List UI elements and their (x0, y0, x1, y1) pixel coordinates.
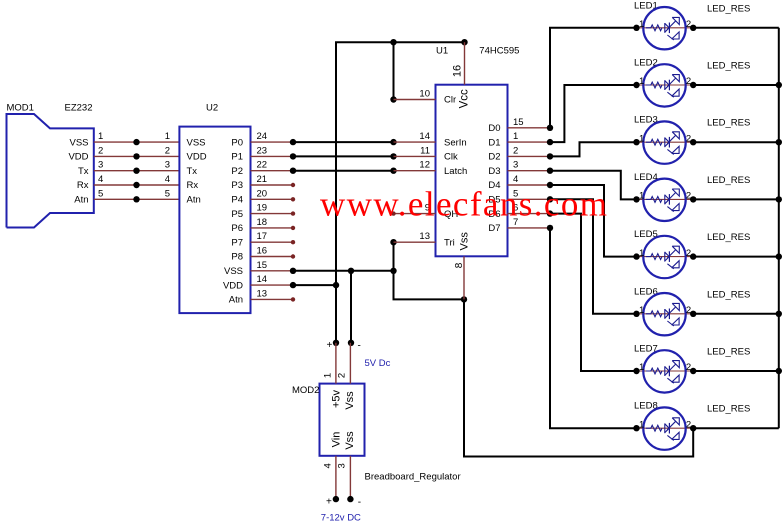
pin stub U1.Vss (pin 8) (454, 256, 465, 299)
svg-text:5: 5 (165, 188, 170, 199)
svg-text:EZ232: EZ232 (65, 103, 93, 114)
svg-text:P6: P6 (231, 223, 243, 234)
svg-text:20: 20 (257, 188, 268, 199)
pin stub U2.P3 (pin 21) (251, 183, 296, 187)
wire U1.D1 to LED2 anode (550, 85, 637, 142)
IC U1 74HC595 (419, 46, 523, 257)
5V supply minus terminal (348, 340, 361, 352)
svg-text:4: 4 (98, 174, 103, 185)
svg-text:Clk: Clk (444, 152, 458, 163)
svg-text:LED_RES: LED_RES (707, 289, 750, 300)
pin stub U2.P7 (pin 17) (251, 240, 296, 244)
7-12v supply minus terminal (347, 496, 361, 508)
svg-text:8: 8 (454, 262, 465, 268)
svg-text:LED_RES: LED_RES (707, 404, 750, 415)
svg-text:Breadboard_Regulator: Breadboard_Regulator (365, 471, 461, 482)
pin stub U2.P5 (pin 19) (251, 211, 296, 215)
svg-text:+5v: +5v (331, 389, 343, 408)
svg-text:4: 4 (323, 463, 334, 468)
svg-text:1: 1 (513, 131, 518, 142)
svg-text:P4: P4 (231, 195, 243, 206)
svg-text:1: 1 (639, 419, 644, 430)
svg-text:4: 4 (513, 174, 518, 185)
svg-text:P3: P3 (231, 180, 243, 191)
svg-text:P8: P8 (231, 252, 243, 263)
svg-text:21: 21 (257, 174, 268, 185)
svg-text:Vcc: Vcc (459, 89, 471, 108)
wire LED cathode bus vertical (778, 28, 780, 428)
LED6 LED_RES (633, 286, 750, 335)
wire 5V rail to U1.Clr (390, 39, 396, 103)
svg-text:LED_RES: LED_RES (707, 347, 750, 358)
svg-text:Vss: Vss (459, 232, 471, 251)
svg-text:11: 11 (420, 145, 430, 156)
svg-text:1: 1 (639, 76, 644, 87)
svg-text:VDD: VDD (187, 152, 207, 163)
svg-text:24: 24 (257, 131, 268, 142)
svg-text:Rx: Rx (77, 180, 89, 191)
svg-text:13: 13 (257, 288, 268, 299)
LED7 LED_RES (633, 344, 750, 393)
svg-text:Clr: Clr (444, 95, 456, 106)
svg-text:www.elecfans.com: www.elecfans.com (320, 185, 608, 224)
pin stub MOD2 pin 4 (Vin) (335, 456, 337, 499)
svg-text:U2: U2 (206, 103, 218, 114)
svg-text:19: 19 (257, 203, 268, 214)
wire U1.D4 to LED5 anode (550, 185, 637, 257)
connector MOD1 EZ232 (7, 103, 104, 228)
LED2 LED_RES (633, 58, 750, 107)
svg-text:D0: D0 (488, 123, 500, 134)
pin stub U1.D6 (508, 210, 554, 216)
svg-text:1: 1 (639, 362, 644, 373)
svg-text:3: 3 (513, 160, 518, 171)
LED1 LED_RES (633, 0, 750, 49)
svg-text:1: 1 (639, 19, 644, 30)
svg-text:1: 1 (639, 248, 644, 259)
svg-text:+: + (327, 340, 333, 351)
wire MOD1.VDD to U2 pin 2 (94, 145, 180, 159)
pin stub U1.D0 (508, 125, 554, 131)
svg-text:7-12v DC: 7-12v DC (321, 513, 361, 524)
svg-text:Vss: Vss (344, 391, 356, 410)
svg-text:2: 2 (337, 373, 348, 378)
svg-text:LED_RES: LED_RES (707, 61, 750, 72)
svg-text:2: 2 (98, 145, 103, 156)
svg-text:5V Dc: 5V Dc (365, 358, 391, 369)
pin stub U1.D7 (508, 225, 554, 231)
svg-text:12: 12 (419, 160, 430, 171)
svg-text:3: 3 (337, 463, 348, 468)
pin stub U1.D3 (508, 168, 554, 174)
svg-text:VSS: VSS (187, 137, 206, 148)
svg-text:D2: D2 (488, 152, 500, 163)
pin stub U1.D2 (508, 153, 554, 159)
svg-text:+: + (326, 497, 332, 508)
svg-text:P5: P5 (231, 209, 243, 220)
svg-text:Rx: Rx (187, 180, 199, 191)
svg-text:D7: D7 (488, 223, 500, 234)
pin stub U2.P4 (pin 20) (251, 197, 296, 201)
svg-text:2: 2 (513, 145, 518, 156)
svg-text:23: 23 (257, 145, 268, 156)
wire LED6 cathode to bus (693, 311, 782, 317)
wire U1.D7 to LED8 anode (550, 228, 637, 428)
svg-text:18: 18 (257, 217, 268, 228)
wire U2.P0 to U1.SerIn (293, 139, 397, 145)
svg-text:Atn: Atn (229, 295, 243, 306)
pin stub U1.Clr (pin 10) (394, 99, 436, 101)
regulator MOD2 Breadboard_Regulator (292, 373, 461, 482)
pin stub U1.D1 (508, 139, 554, 145)
svg-text:10: 10 (419, 89, 430, 100)
pin stub U2.VSS (pin 15) (251, 268, 297, 274)
wire LED5 cathode to bus (693, 253, 782, 259)
svg-text:LED_RES: LED_RES (707, 175, 750, 186)
svg-text:P1: P1 (231, 152, 243, 163)
svg-text:16: 16 (257, 246, 268, 257)
wire U1.D3 to LED4 anode (550, 171, 637, 200)
svg-text:Atn: Atn (187, 195, 201, 206)
wire LED4 cathode to bus (693, 196, 782, 202)
svg-text:1: 1 (98, 131, 103, 142)
svg-text:14: 14 (419, 131, 430, 142)
pin stub MOD2 pin 2 (Vss) (349, 343, 351, 384)
7-12v supply plus terminal (326, 496, 339, 508)
svg-text:3: 3 (98, 160, 103, 171)
wire U2.VSS to Vss net (293, 268, 397, 274)
svg-text:1: 1 (639, 133, 644, 144)
svg-text:15: 15 (257, 260, 268, 271)
svg-text:Vin: Vin (331, 432, 343, 448)
svg-text:Latch: Latch (444, 166, 467, 177)
pin stub U1.Clk (pin 11) (394, 155, 436, 157)
svg-text:22: 22 (257, 160, 268, 171)
wire U2.P2 to U1.Latch (293, 168, 397, 174)
LED5 LED_RES (633, 229, 750, 278)
svg-text:Tx: Tx (187, 166, 198, 177)
pin stub U2.P8 (pin 16) (251, 254, 296, 258)
pin stub U1.D4 (508, 182, 554, 188)
svg-text:MOD2: MOD2 (292, 385, 319, 396)
svg-text:VSS: VSS (224, 266, 243, 277)
pin stub U2.P1 (pin 23) (251, 153, 297, 159)
wire U1.Tri to Vss net (390, 239, 396, 271)
svg-text:74HC595: 74HC595 (479, 46, 519, 57)
svg-text:LED_RES: LED_RES (707, 232, 750, 243)
5V supply plus terminal (327, 340, 340, 351)
svg-text:2: 2 (165, 145, 170, 156)
svg-text:Tri: Tri (444, 237, 455, 248)
svg-text:3: 3 (165, 160, 170, 171)
pin stub U2.Atn (pin 13) (251, 297, 296, 301)
svg-text:Tx: Tx (78, 166, 89, 177)
pin stub U1.SerIn (pin 14) (394, 141, 436, 143)
svg-text:VDD: VDD (223, 280, 243, 291)
svg-text:LED_RES: LED_RES (707, 3, 750, 14)
svg-text:VDD: VDD (68, 152, 88, 163)
svg-text:MOD1: MOD1 (7, 103, 34, 114)
svg-text:LED_RES: LED_RES (707, 118, 750, 129)
wire Vss net loop to LED8 cathode bus (464, 299, 693, 456)
svg-text:13: 13 (419, 231, 430, 242)
wire U1.D6 to LED7 anode (550, 214, 637, 371)
wire U2.VDD to 5V rail (293, 282, 339, 288)
pin stub U1.Vcc (pin 16) (452, 42, 465, 84)
svg-text:D3: D3 (488, 166, 500, 177)
pin stub U1.Tri (pin 13) (394, 241, 436, 243)
svg-text:17: 17 (257, 231, 268, 242)
wire U2.P1 to U1.Clk (293, 153, 397, 159)
pin stub MOD2 pin 3 (Vss) (349, 456, 351, 499)
svg-text:U1: U1 (436, 46, 448, 57)
wire LED3 cathode to bus (693, 139, 782, 145)
svg-text:15: 15 (513, 117, 524, 128)
svg-text:16: 16 (452, 65, 464, 77)
svg-text:Vss: Vss (344, 431, 356, 450)
wire 5V rail vertical and top rail to U1.Vcc (336, 39, 468, 343)
wire MOD1.Tx to U2 pin 3 (94, 160, 180, 174)
wire U1.D2 to LED3 anode (550, 142, 637, 156)
svg-text:VSS: VSS (69, 137, 88, 148)
wire MOD1.Rx to U2 pin 4 (94, 174, 180, 188)
svg-text:Atn: Atn (74, 195, 88, 206)
svg-text:D1: D1 (488, 137, 500, 148)
wire LED2 cathode to bus (693, 82, 782, 88)
wire MOD1.Atn to U2 pin 5 (94, 188, 180, 202)
svg-text:1: 1 (639, 191, 644, 202)
svg-text:P7: P7 (231, 237, 243, 248)
wire LED8 cathode to bus (693, 427, 779, 429)
LED3 LED_RES (633, 115, 750, 164)
svg-text:P2: P2 (231, 166, 243, 177)
pin stub U1.D5 (508, 196, 554, 202)
wire LED7 cathode to bus (693, 368, 782, 374)
pin stub MOD2 pin 1 (+5v) (335, 343, 337, 384)
pin stub U2.P0 (pin 24) (251, 139, 297, 145)
svg-text:P0: P0 (231, 137, 243, 148)
wire MOD1.VSS to U2 pin 1 (94, 131, 180, 145)
svg-text:SerIn: SerIn (444, 137, 467, 148)
svg-text:-: - (358, 497, 361, 508)
pin stub U1.Latch (pin 12) (394, 170, 436, 172)
pin stub U2.P2 (pin 22) (251, 168, 297, 174)
svg-text:1: 1 (639, 305, 644, 316)
wire Vss net to U1 pin 8 (394, 271, 468, 303)
svg-text:-: - (358, 341, 361, 352)
wire U1.D5 to LED6 anode (550, 199, 637, 313)
svg-text:1: 1 (323, 373, 334, 378)
wire LED1 cathode to bus (693, 27, 779, 29)
LED4 LED_RES (633, 172, 750, 221)
IC U2 (179, 103, 267, 314)
wire Vss net vertical to 5V supply minus (350, 271, 352, 343)
pin stub U2.VDD (pin 14) (251, 282, 297, 288)
svg-text:4: 4 (165, 174, 170, 185)
pin stub U1.QH (pin 9) (391, 211, 435, 215)
LED8 LED_RES (633, 401, 750, 450)
svg-text:1: 1 (165, 131, 170, 142)
svg-text:5: 5 (98, 188, 103, 199)
wire U1.D0 to LED1 anode (550, 28, 637, 128)
svg-text:14: 14 (257, 274, 268, 285)
pin stub U2.P6 (pin 18) (251, 226, 296, 230)
